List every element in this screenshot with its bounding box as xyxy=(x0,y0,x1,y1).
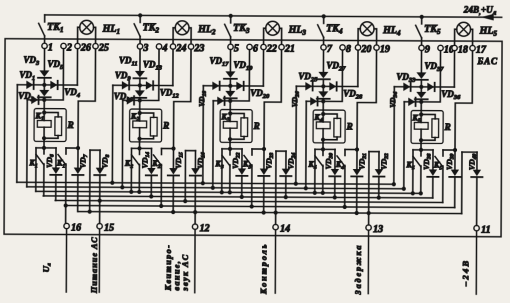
svg-text:звук АС: звук АС xyxy=(181,253,190,291)
svg-text:VD33: VD33 xyxy=(396,72,416,84)
svg-text:16: 16 xyxy=(71,223,81,234)
svg-text:12: 12 xyxy=(200,223,210,234)
svg-text:VD40: VD40 xyxy=(467,153,478,170)
svg-text:БАС: БАС xyxy=(476,56,498,66)
svg-text:VD34: VD34 xyxy=(388,92,399,108)
svg-text:Контроль: Контроль xyxy=(259,243,268,295)
svg-text:VD16: VD16 xyxy=(196,152,207,169)
svg-text:HL2: HL2 xyxy=(197,24,216,36)
svg-text:VD4: VD4 xyxy=(64,87,81,99)
svg-text:VD26: VD26 xyxy=(290,91,301,107)
svg-text:7: 7 xyxy=(327,44,333,55)
svg-text:4: 4 xyxy=(161,43,167,54)
svg-text:VD37: VD37 xyxy=(424,61,444,73)
svg-text:6: 6 xyxy=(253,43,258,54)
svg-text:20: 20 xyxy=(360,44,371,55)
svg-text:ТК3: ТК3 xyxy=(233,23,250,35)
svg-text:ТК4: ТК4 xyxy=(326,23,343,35)
svg-text:23: 23 xyxy=(193,43,204,54)
svg-text:VD10: VD10 xyxy=(114,91,134,103)
svg-text:VD3: VD3 xyxy=(23,55,40,67)
svg-text:VD11: VD11 xyxy=(119,55,138,67)
svg-text:VD23: VD23 xyxy=(264,152,275,169)
svg-text:26: 26 xyxy=(80,43,91,54)
svg-text:18: 18 xyxy=(458,45,468,56)
svg-text:1: 1 xyxy=(48,42,53,53)
svg-text:HL5: HL5 xyxy=(479,26,498,38)
svg-text:VD15: VD15 xyxy=(174,152,185,169)
svg-text:R: R xyxy=(253,121,260,131)
svg-text:VD8: VD8 xyxy=(100,154,111,168)
svg-text:ТК5: ТК5 xyxy=(424,24,441,36)
svg-text:VD22: VD22 xyxy=(231,152,242,169)
svg-text:VD19: VD19 xyxy=(233,60,253,72)
svg-text:19: 19 xyxy=(380,44,390,55)
svg-text:8: 8 xyxy=(346,44,351,55)
svg-text:VD28: VD28 xyxy=(343,88,363,100)
svg-text:24: 24 xyxy=(175,43,186,54)
svg-text:VD13: VD13 xyxy=(143,59,163,71)
svg-text:VD39: VD39 xyxy=(445,153,456,170)
svg-text:2: 2 xyxy=(66,43,72,54)
svg-text:15: 15 xyxy=(104,223,114,234)
svg-text:VD25: VD25 xyxy=(298,71,318,83)
svg-text:VD30: VD30 xyxy=(324,153,335,170)
svg-text:21: 21 xyxy=(284,44,295,55)
svg-text:VD7: VD7 xyxy=(78,154,89,168)
svg-text:HL1: HL1 xyxy=(102,24,120,36)
svg-text:VD17: VD17 xyxy=(209,56,229,68)
svg-text:VD27: VD27 xyxy=(326,60,346,72)
svg-text:Uл: Uл xyxy=(41,263,53,272)
svg-text:Задержка: Задержка xyxy=(354,244,363,296)
svg-text:11: 11 xyxy=(481,225,491,236)
svg-text:ТК1: ТК1 xyxy=(47,22,63,34)
svg-text:VD31: VD31 xyxy=(357,153,368,170)
svg-text:VD32: VD32 xyxy=(379,153,390,170)
svg-text:VD5: VD5 xyxy=(47,59,64,71)
svg-text:VD12: VD12 xyxy=(160,88,180,100)
svg-text:R: R xyxy=(67,120,74,130)
svg-text:ТК2: ТК2 xyxy=(143,22,160,34)
svg-text:17: 17 xyxy=(476,45,487,56)
svg-text:VD18: VD18 xyxy=(197,91,208,107)
svg-text:HL4: HL4 xyxy=(382,25,401,37)
svg-text:R: R xyxy=(444,122,451,132)
svg-text:VD9: VD9 xyxy=(115,70,132,82)
svg-text:VD20: VD20 xyxy=(250,88,270,100)
svg-text:VD6: VD6 xyxy=(45,154,56,168)
svg-text:22: 22 xyxy=(266,44,277,55)
svg-text:VD36: VD36 xyxy=(441,89,461,101)
svg-text:VD14: VD14 xyxy=(140,152,151,169)
svg-text:Питание АС: Питание АС xyxy=(90,236,99,294)
svg-text:9: 9 xyxy=(425,44,430,55)
svg-text:13: 13 xyxy=(373,224,383,235)
svg-text:HL3: HL3 xyxy=(288,25,307,37)
svg-text:5: 5 xyxy=(234,43,239,54)
svg-text:VD38: VD38 xyxy=(422,153,433,170)
svg-text:R: R xyxy=(162,121,169,131)
svg-text:–24В: –24В xyxy=(460,259,470,287)
svg-text:R: R xyxy=(346,121,353,131)
svg-text:VD1: VD1 xyxy=(19,70,35,82)
svg-text:25: 25 xyxy=(98,43,109,54)
svg-text:3: 3 xyxy=(142,43,148,54)
svg-text:14: 14 xyxy=(280,224,290,235)
